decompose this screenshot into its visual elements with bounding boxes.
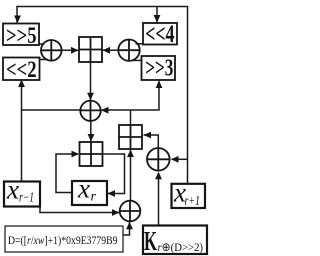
wire XOR4 output up into adder F bottom	[130, 150, 132, 201]
svg-text:x: x	[6, 173, 19, 204]
box >>5	[3, 24, 39, 46]
XOR2 circle-plus	[118, 40, 139, 61]
box x_r+1	[172, 184, 206, 208]
wire x_r-1 riser up into <<2	[21, 80, 23, 181]
box >>3	[142, 56, 176, 80]
svg-text:>>3: >>3	[145, 56, 173, 82]
arrowhead into adder E left	[71, 47, 79, 54]
arrowhead into XOR4 left	[112, 209, 120, 216]
arrowhead into XOR3 top	[87, 93, 94, 101]
box <<2	[3, 58, 40, 81]
wire mid horizontal into XOR3 left	[22, 109, 83, 111]
arrowhead into XOR3 right	[101, 107, 109, 114]
arrowhead into adder E right	[103, 47, 111, 54]
wire x_r loop into adder G left	[56, 154, 78, 193]
wire >>3 to XOR2	[132, 59, 142, 61]
svg-text:>>5: >>5	[6, 23, 37, 49]
svg-text:K: K	[144, 226, 157, 256]
svg-text:x: x	[77, 173, 90, 204]
wire >>5 to XOR1	[39, 43, 45, 45]
arrowhead into adder G left	[72, 151, 80, 158]
wire adder E output down to XOR3	[90, 62, 92, 100]
arrowhead into adder F bottom	[127, 150, 134, 158]
XOR1 circle-plus	[41, 40, 62, 61]
arrowhead into x_r right	[108, 190, 116, 197]
svg-text:r+1: r+1	[185, 193, 201, 208]
svg-text:r−1: r−1	[19, 190, 34, 205]
box x_r-1	[4, 182, 40, 207]
adder E box-plus	[79, 37, 102, 62]
adder F box-plus	[119, 125, 142, 149]
wire K box riser up to XOR5 bottom	[158, 173, 160, 225]
arrowhead into adder G top	[88, 134, 95, 142]
wire D box to XOR4 bottom	[123, 222, 130, 235]
wire <<2 to XOR1	[39, 59, 48, 61]
arrowhead into XOR5 bottom	[155, 172, 162, 180]
wire XOR3 output down to adder G	[90, 121, 92, 142]
box K key	[143, 226, 207, 255]
wire XOR2 to adder E	[103, 49, 119, 51]
wire adder G output to x_r right	[103, 154, 125, 194]
wire top bus from corner above >>5 across to right border down to x_r+1	[17, 7, 188, 185]
wire branch down into <<4	[156, 7, 158, 23]
svg-text:r⊕(D>>2): r⊕(D>>2)	[158, 240, 204, 254]
arrowhead into <<2 bottom	[18, 80, 25, 88]
wire XOR5 output up and left into adder F right	[144, 135, 159, 148]
wire <<4 to XOR2	[136, 43, 144, 45]
wire stub box F top to mid wire	[130, 110, 132, 125]
wire border tap into XOR5 right	[172, 158, 188, 160]
arrowhead into >>3 bottom	[156, 81, 163, 89]
arrowhead into adder F right	[144, 132, 152, 139]
XOR3 circle-plus	[80, 101, 100, 121]
box <<4	[143, 23, 177, 45]
svg-text:r: r	[91, 189, 97, 204]
arrowhead into XOR4 bottom	[126, 222, 133, 230]
svg-text:D=([r/xw]+1)*0x9E3779B9: D=([r/xw]+1)*0x9E3779B9	[8, 233, 118, 247]
wire XOR1 to adder E	[61, 49, 78, 51]
box x_r	[72, 181, 107, 205]
adder G box-plus	[80, 142, 103, 166]
XOR5 circle-plus	[147, 148, 170, 171]
box D delta	[5, 226, 123, 252]
wire XOR3 right input from box F top junction and up into >>3	[102, 81, 160, 110]
arrowhead into >>5 top	[14, 16, 21, 24]
svg-text:<<2: <<2	[6, 57, 37, 83]
svg-text:<<4: <<4	[145, 21, 175, 48]
arrowhead into <<4 top	[154, 15, 161, 23]
arrowhead into XOR5 right	[171, 156, 179, 163]
wire x_r-1 bottom to XOR4 left	[40, 206, 119, 213]
XOR4 circle-plus	[120, 201, 141, 222]
